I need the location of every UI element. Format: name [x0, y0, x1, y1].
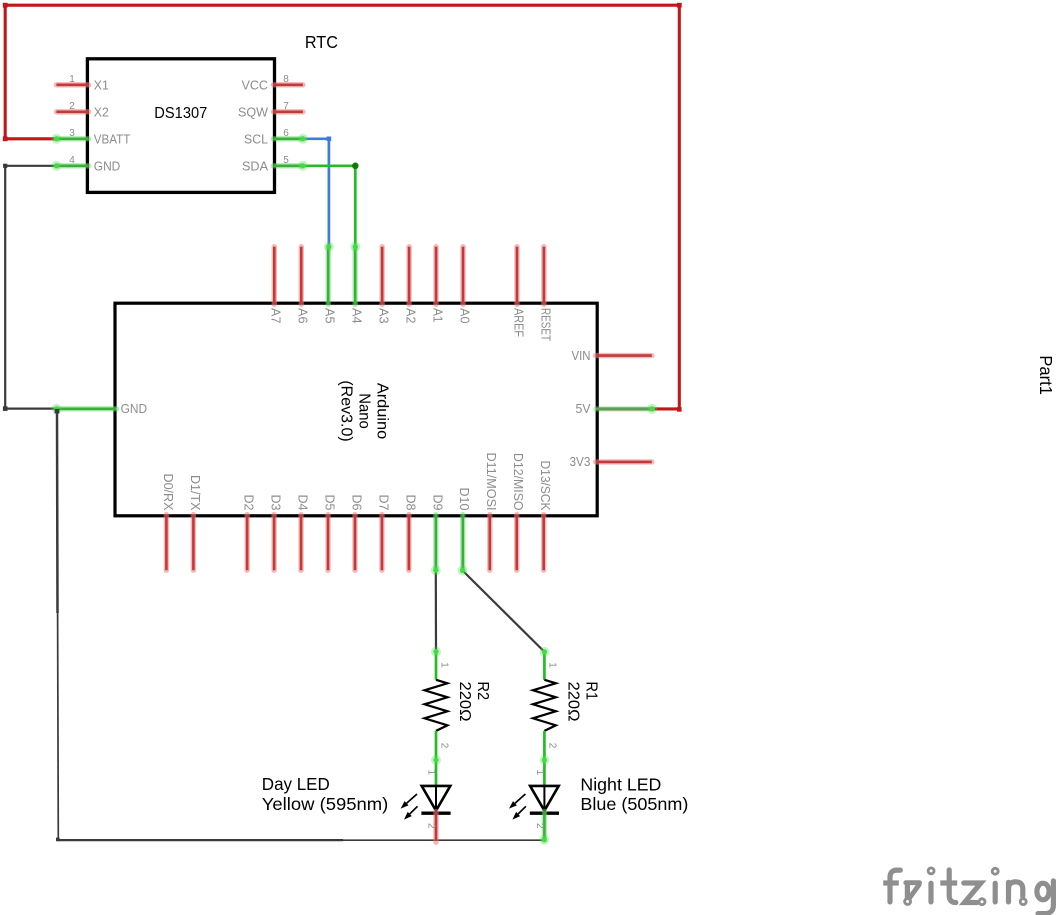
svg-text:A4: A4 [350, 308, 364, 324]
pin D3 (Nano bottom) [271, 515, 276, 571]
svg-text:220Ω: 220Ω [456, 682, 473, 722]
wire SDA net: down to Nano A4 [354, 166, 357, 247]
svg-text:X1: X1 [94, 78, 109, 92]
pin 8 VCC (RTC) [273, 82, 303, 87]
svg-text:1: 1 [426, 770, 437, 776]
svg-text:D1/TX: D1/TX [188, 475, 202, 511]
pin VIN (Nano right) [596, 353, 652, 358]
node R1-LED1 junction [539, 755, 549, 765]
svg-text:7: 7 [283, 101, 289, 112]
resistor R1 220&#937; [543, 652, 546, 680]
pin D8 (Nano bottom) [406, 515, 411, 571]
svg-text:5: 5 [283, 155, 289, 166]
svg-text:Nano: Nano [356, 393, 373, 428]
pin D10 (Nano bottom) [460, 515, 465, 571]
svg-text:Night LED: Night LED [580, 774, 661, 794]
junction black bend below GND pin [55, 409, 60, 414]
pin D6 (Nano bottom) [352, 515, 357, 571]
svg-text:D3: D3 [269, 495, 283, 511]
node SCL terminal [298, 134, 308, 144]
pin D12/MISO (Nano bottom) [514, 515, 519, 571]
svg-text:A3: A3 [377, 308, 391, 324]
wire D9 net: Nano D9 down to R2 [435, 570, 437, 651]
node R2 pin1 junction [431, 647, 441, 657]
wire SDA net: RTC SDA to junction [303, 164, 355, 167]
svg-text:RTC: RTC [305, 32, 338, 52]
svg-text:Part1: Part1 [1036, 355, 1056, 395]
svg-text:2: 2 [438, 743, 449, 749]
pin AREF (Nano top) [514, 247, 519, 305]
junction black bend left-mid [3, 164, 7, 168]
svg-text:6: 6 [283, 128, 289, 139]
pin 5V (Nano right) [596, 406, 652, 411]
svg-text:SDA: SDA [242, 159, 269, 173]
svg-text:AREF: AREF [511, 308, 525, 337]
svg-text:R2: R2 [474, 682, 491, 701]
wire 5V net: Nano 5V to bend [598, 407, 680, 410]
resistor R2 220&#937; [435, 652, 438, 680]
wire D10 net: Nano D10 diagonal to R1 [463, 571, 545, 652]
svg-text:A7: A7 [269, 308, 283, 324]
fritzing logo [890, 870, 900, 902]
wire 5V net: right vertical riser [678, 5, 681, 410]
pin A2 (Nano top) [406, 247, 411, 305]
wire GND net: bottom horizontal left part [57, 839, 343, 841]
wire GND net: RTC GND to left edge [5, 165, 56, 167]
node Nano GND terminal [51, 404, 61, 414]
pin A0 (Nano top) [460, 247, 465, 305]
pin A6 (Nano top) [299, 247, 304, 305]
svg-text:8: 8 [283, 74, 289, 85]
pin D1/TX (Nano bottom) [191, 515, 196, 571]
node RTC GND terminal [51, 161, 61, 171]
junction SDA dark-green bendpoint [352, 163, 359, 170]
svg-text:D8: D8 [403, 495, 417, 511]
svg-text:(Rev3.0): (Rev3.0) [338, 380, 355, 441]
node A5 terminal [324, 242, 334, 252]
svg-text:2: 2 [426, 823, 437, 829]
wire 5V net: into RTC VBATT [5, 137, 56, 140]
wire GND net: into Nano GND pin [5, 408, 56, 410]
svg-text:SCL: SCL [244, 132, 268, 146]
svg-text:D12/MISO: D12/MISO [511, 453, 525, 511]
svg-text:3V3: 3V3 [570, 455, 591, 469]
svg-text:A6: A6 [296, 308, 310, 324]
svg-text:1: 1 [69, 74, 75, 85]
pin 3V3 (Nano right) [596, 459, 652, 464]
svg-text:D2: D2 [242, 495, 256, 511]
pin A4 (Nano top) [352, 247, 357, 305]
pin D0/RX (Nano bottom) [164, 515, 169, 571]
node D9 terminal [431, 565, 441, 575]
svg-text:RESET: RESET [538, 308, 552, 341]
junction red bend top-left [3, 3, 8, 8]
node D10 terminal [458, 566, 468, 576]
pin 3 VBATT (RTC) [56, 136, 88, 141]
node LED1 cathode terminal [539, 835, 549, 845]
svg-text:2: 2 [534, 823, 545, 829]
svg-text:VCC: VCC [242, 78, 269, 92]
pin D11/MOSI (Nano bottom) [487, 515, 492, 571]
svg-text:5V: 5V [576, 402, 592, 416]
node SDA terminal [298, 161, 308, 171]
pin RESET (Nano top) [541, 247, 546, 305]
pin A7 (Nano top) [272, 247, 277, 305]
wire GND net: vertical drop lower part [57, 613, 60, 839]
pin D2 (Nano bottom) [244, 515, 249, 571]
wire GND net: left vertical drop [4, 166, 6, 409]
svg-text:D4: D4 [295, 495, 309, 511]
svg-text:Arduino: Arduino [374, 383, 391, 439]
pin A1 (Nano top) [433, 247, 438, 305]
svg-text:A0: A0 [457, 308, 471, 324]
junction black bend bottom-left corner [56, 838, 60, 842]
pin D13/SCK (Nano bottom) [541, 515, 546, 571]
node R1 pin1 junction [540, 647, 550, 657]
pin D7 (Nano bottom) [379, 515, 384, 571]
svg-text:GND: GND [94, 159, 121, 173]
node R2-LED2 junction [431, 755, 441, 765]
pin A5 (Nano top) [326, 247, 331, 305]
svg-text:1: 1 [534, 770, 545, 776]
svg-text:A1: A1 [430, 308, 444, 323]
pin D9 (Nano bottom) [433, 515, 438, 571]
svg-text:GND: GND [121, 402, 148, 416]
svg-text:1: 1 [547, 662, 558, 668]
svg-text:3: 3 [69, 128, 75, 139]
svg-text:Yellow (595nm): Yellow (595nm) [262, 794, 389, 814]
svg-text:2: 2 [547, 743, 558, 749]
svg-text:D0/RX: D0/RX [161, 474, 175, 512]
svg-text:D13/SCK: D13/SCK [538, 461, 552, 512]
pin 7 SQW (RTC) [273, 109, 303, 114]
pin D4 (Nano bottom) [298, 515, 303, 571]
junction blue bend [327, 137, 332, 142]
wire SCL net: down to Nano A5 [328, 139, 331, 247]
pin A3 (Nano top) [379, 247, 384, 305]
pin 6 SCL (RTC) [273, 136, 303, 141]
svg-text:1: 1 [438, 662, 449, 668]
wire GND net: vertical drop upper part [56, 411, 59, 613]
svg-text:4: 4 [69, 155, 75, 166]
svg-text:Blue (505nm): Blue (505nm) [580, 794, 688, 814]
svg-text:220Ω: 220Ω [564, 682, 581, 722]
svg-text:X2: X2 [94, 105, 109, 119]
svg-text:D6: D6 [349, 495, 363, 511]
svg-text:Day LED: Day LED [262, 774, 330, 794]
svg-text:DS1307: DS1307 [154, 105, 207, 122]
pin 1 X1 (RTC) [56, 82, 88, 87]
pin 2 X2 (RTC) [56, 109, 88, 114]
wire 5V net: left vertical drop [4, 5, 7, 139]
svg-text:D10: D10 [457, 488, 471, 511]
svg-text:D5: D5 [322, 495, 336, 511]
svg-text:VBATT: VBATT [94, 132, 131, 146]
node 5V terminal [647, 404, 657, 414]
svg-text:D7: D7 [376, 495, 390, 511]
svg-text:D9: D9 [430, 495, 444, 511]
node A4 terminal [350, 242, 360, 252]
pin 4 GND (RTC) [56, 163, 88, 168]
IC U2 DS1307 RTC body [87, 59, 274, 193]
svg-text:R1: R1 [582, 682, 599, 701]
junction red bend top-right [677, 3, 682, 8]
pin GND (Nano left) [56, 406, 116, 411]
pin 5 SDA (RTC) [273, 163, 303, 168]
junction black bend at GND row [3, 406, 8, 411]
junction red bend at 5V pin row [677, 407, 682, 412]
IC U1 Arduino Nano body [115, 303, 597, 516]
wire GND net: bottom horizontal right part to LED2 [343, 839, 544, 841]
pin D5 (Nano bottom) [325, 515, 330, 571]
svg-text:VIN: VIN [572, 349, 591, 363]
svg-text:2: 2 [69, 101, 75, 112]
LED LED2 (Day) symbol [435, 760, 438, 787]
svg-text:D11/MOSI: D11/MOSI [484, 453, 498, 511]
svg-text:A2: A2 [404, 308, 418, 324]
node VBATT terminal [51, 134, 61, 144]
LED LED1 (Night) symbol [543, 760, 546, 787]
svg-text:A5: A5 [323, 308, 337, 324]
junction red bend left at VBATT row [3, 136, 8, 141]
wire SCL net: RTC SCL to bend [303, 137, 329, 140]
wire 5V net: top horizontal run [5, 4, 679, 7]
svg-text:SQW: SQW [238, 105, 268, 119]
